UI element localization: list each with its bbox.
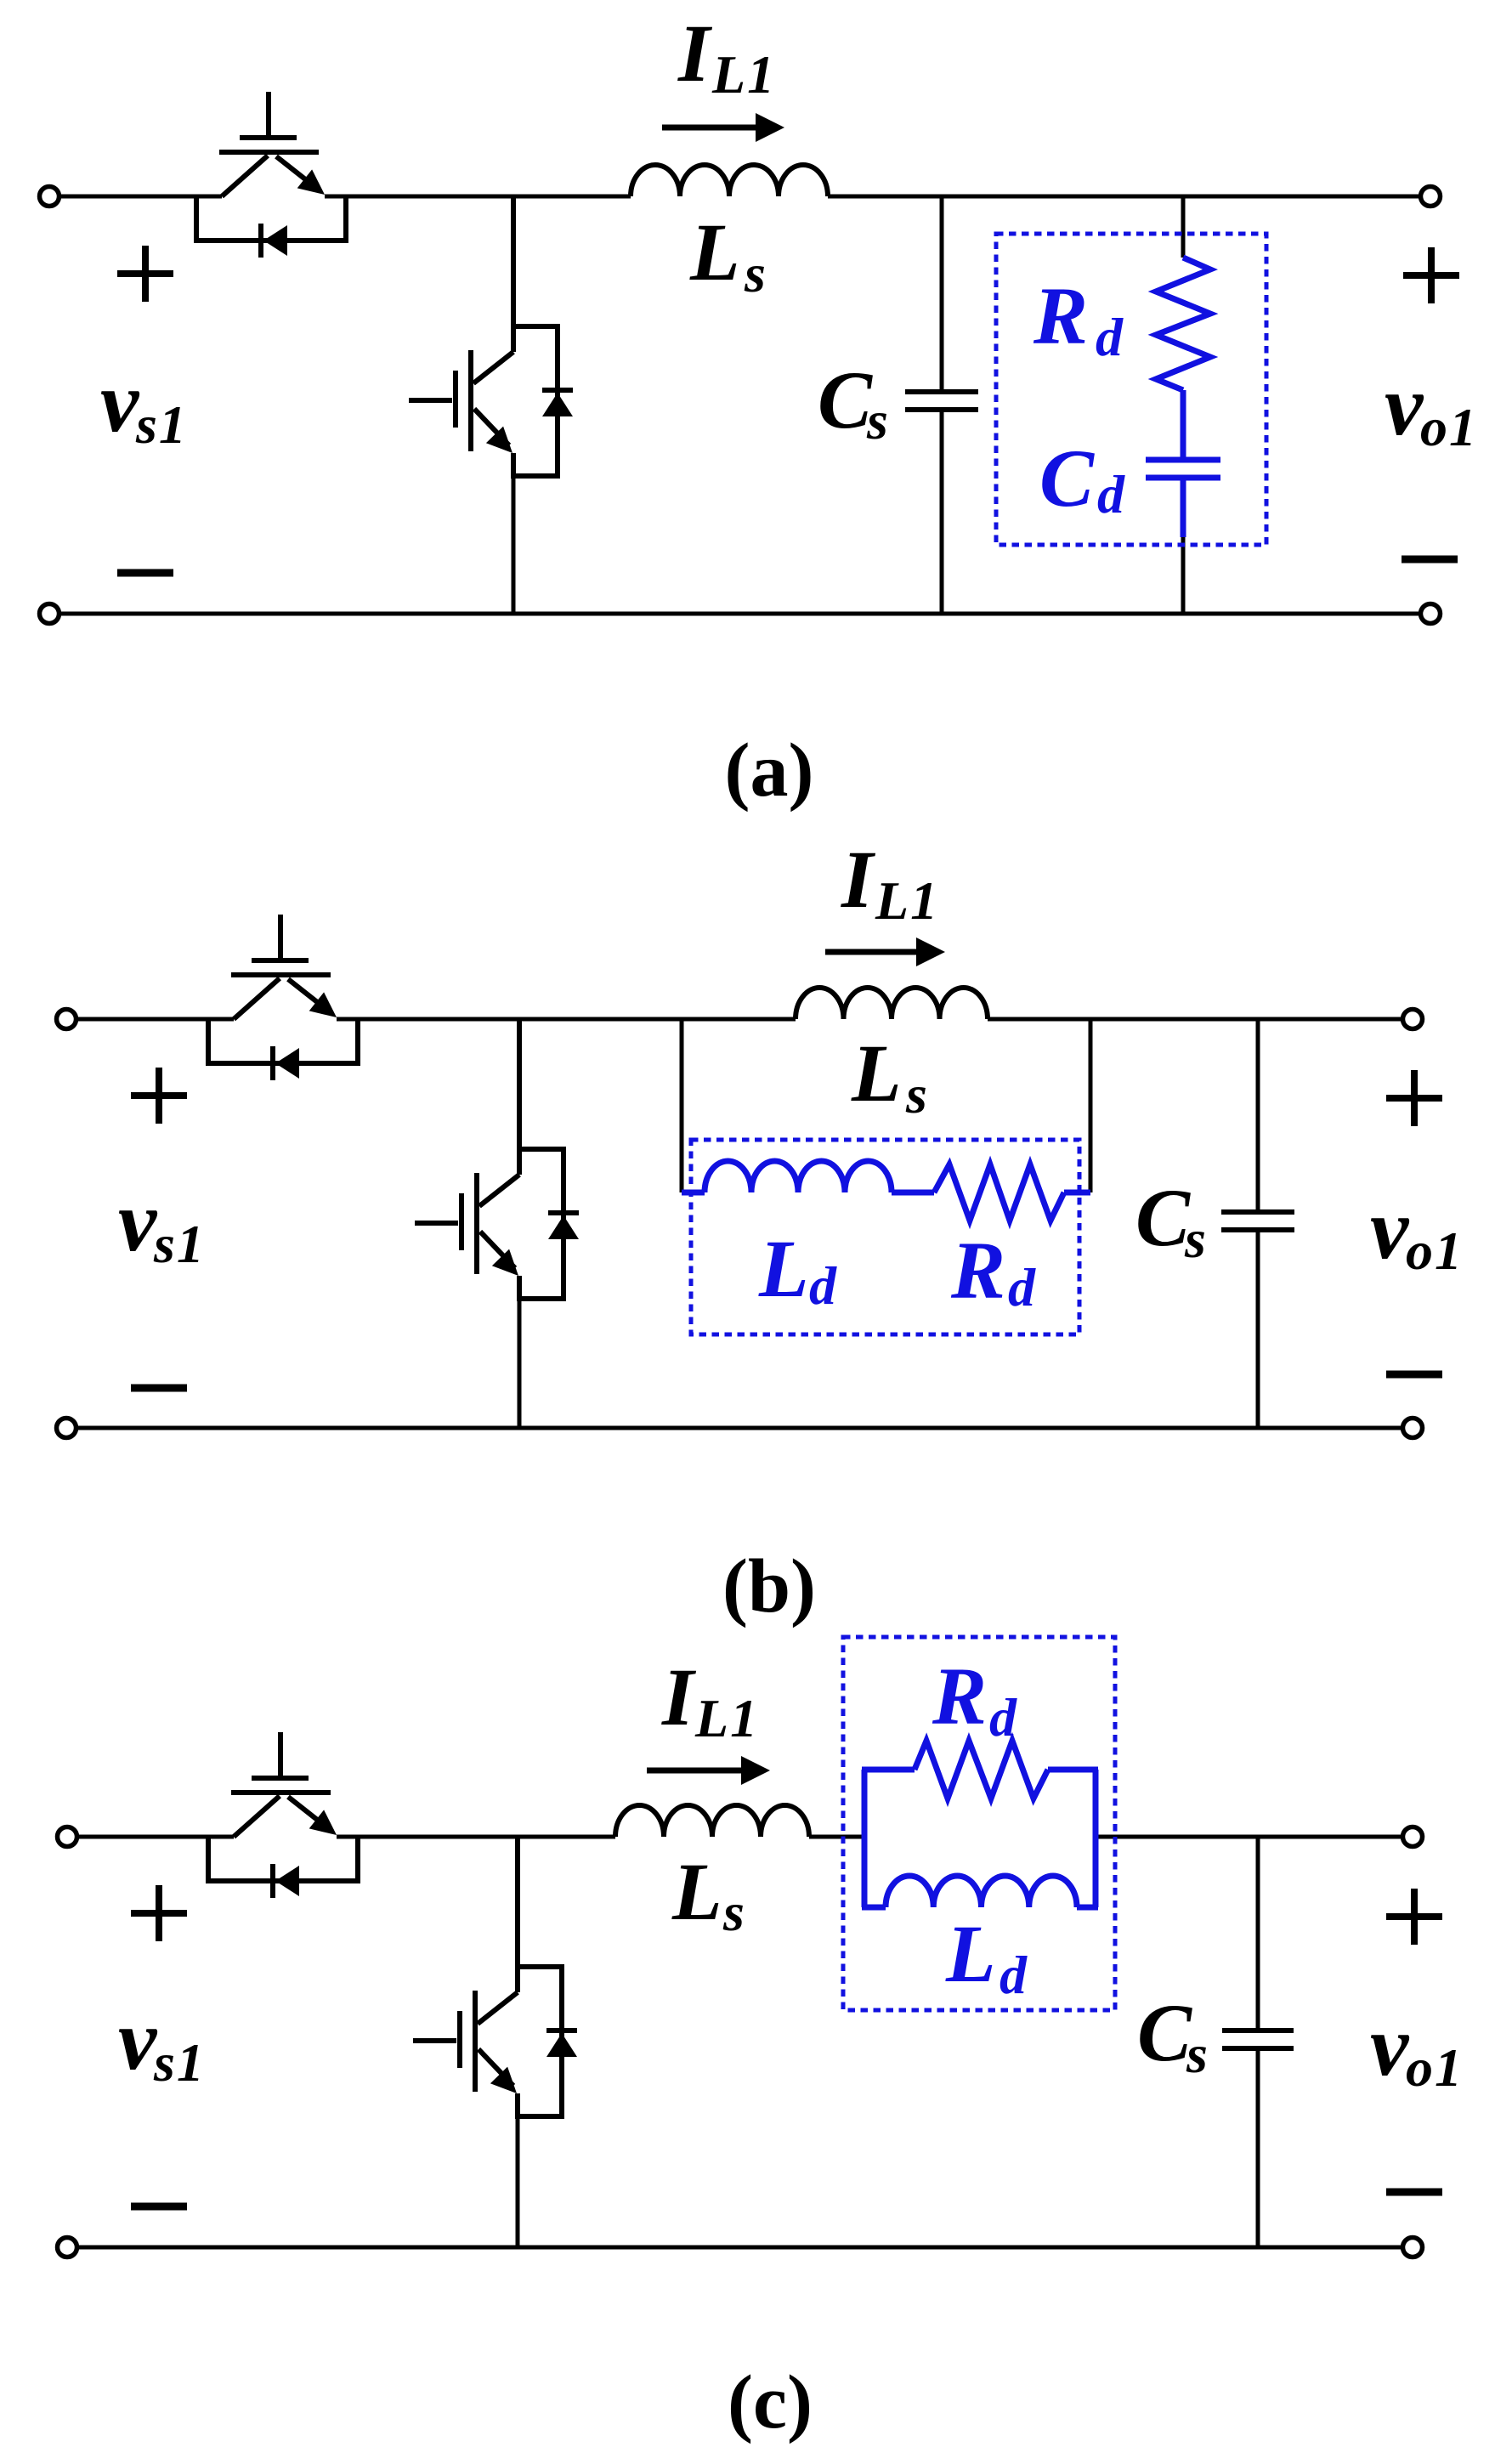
svg-text:L: L xyxy=(851,1028,902,1119)
svg-text:s: s xyxy=(905,1064,929,1124)
svg-text:s: s xyxy=(1186,2024,1209,2084)
svg-text:I: I xyxy=(841,834,876,925)
svg-text:s: s xyxy=(866,390,890,450)
svg-text:d: d xyxy=(809,1255,838,1316)
svg-text:C: C xyxy=(1137,1987,1192,2078)
svg-text:o1: o1 xyxy=(1420,397,1478,457)
svg-text:s: s xyxy=(722,1882,746,1942)
svg-text:s1: s1 xyxy=(135,394,188,455)
svg-text:I: I xyxy=(677,8,713,99)
svg-text:C: C xyxy=(1039,433,1095,524)
svg-text:R: R xyxy=(950,1225,1005,1316)
svg-text:d: d xyxy=(1008,1257,1037,1317)
svg-text:L1: L1 xyxy=(711,44,776,105)
svg-text:v: v xyxy=(100,354,140,450)
svg-text:C: C xyxy=(1135,1172,1191,1263)
svg-text:L: L xyxy=(689,207,740,297)
svg-text:L: L xyxy=(945,1908,996,1999)
svg-text:s1: s1 xyxy=(153,1214,206,1274)
svg-text:v: v xyxy=(118,1992,158,2088)
svg-text:L: L xyxy=(671,1846,722,1937)
svg-text:d: d xyxy=(989,1687,1018,1747)
svg-text:o1: o1 xyxy=(1406,2037,1464,2098)
svg-text:(b): (b) xyxy=(722,1544,816,1629)
svg-text:L1: L1 xyxy=(694,1688,759,1748)
svg-text:C: C xyxy=(818,354,873,445)
svg-text:L: L xyxy=(758,1223,809,1314)
svg-text:R: R xyxy=(1033,270,1088,361)
svg-text:v: v xyxy=(118,1174,158,1270)
svg-text:L1: L1 xyxy=(875,870,939,931)
svg-text:d: d xyxy=(1097,464,1126,524)
svg-text:s1: s1 xyxy=(153,2032,206,2093)
svg-text:d: d xyxy=(1000,1945,1028,2005)
svg-text:v: v xyxy=(1385,358,1424,454)
svg-text:v: v xyxy=(1370,1181,1410,1277)
svg-text:(a): (a) xyxy=(725,728,814,813)
svg-text:v: v xyxy=(1370,1998,1410,2094)
svg-text:(c): (c) xyxy=(728,2360,813,2444)
svg-text:s: s xyxy=(1184,1209,1208,1269)
svg-text:o1: o1 xyxy=(1406,1221,1464,1281)
svg-text:s: s xyxy=(744,243,767,303)
svg-text:I: I xyxy=(661,1651,697,1742)
svg-text:d: d xyxy=(1096,307,1124,367)
svg-text:R: R xyxy=(932,1651,987,1742)
